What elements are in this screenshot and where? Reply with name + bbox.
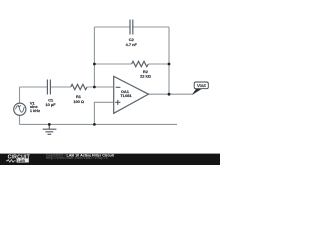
- svg-text:http://circuitlab.com/c8827v9d: http://circuitlab.com/c8827v9dp7k: [46, 156, 108, 160]
- svg-text:LAB: LAB: [18, 159, 26, 163]
- svg-text:10 μF: 10 μF: [46, 102, 57, 107]
- svg-text:22 kΩ: 22 kΩ: [140, 74, 151, 79]
- svg-text:Vout: Vout: [197, 83, 207, 88]
- svg-text:4.7 nF: 4.7 nF: [126, 42, 138, 47]
- svg-text:1 kHz: 1 kHz: [30, 108, 40, 113]
- svg-text:TL081: TL081: [120, 93, 132, 98]
- svg-text:100 Ω: 100 Ω: [73, 99, 84, 104]
